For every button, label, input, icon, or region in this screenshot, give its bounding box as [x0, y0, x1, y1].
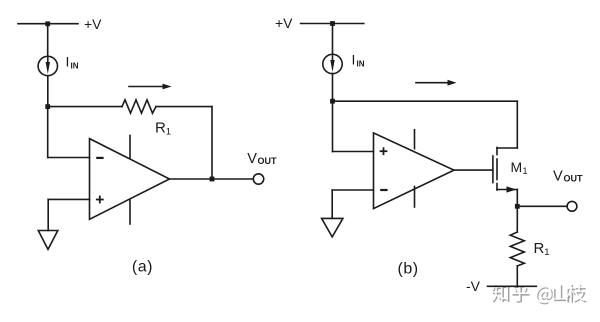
svg-text:-V: -V	[466, 278, 481, 294]
svg-text:1: 1	[544, 247, 549, 258]
svg-text:(b): (b)	[398, 261, 419, 278]
svg-text:V: V	[553, 169, 563, 185]
svg-text:+V: +V	[84, 16, 102, 32]
svg-text:IN: IN	[357, 60, 365, 69]
svg-text:OUT: OUT	[564, 174, 584, 184]
svg-text:1: 1	[166, 126, 171, 137]
svg-text:+V: +V	[275, 15, 293, 31]
svg-text:M: M	[511, 159, 523, 175]
svg-text:I: I	[352, 52, 356, 68]
svg-text:R: R	[534, 240, 545, 257]
svg-text:R: R	[155, 119, 166, 136]
svg-text:V: V	[247, 151, 257, 167]
svg-text:I: I	[66, 54, 70, 70]
svg-text:(a): (a)	[132, 259, 153, 276]
svg-text:1: 1	[523, 166, 528, 176]
svg-text:OUT: OUT	[258, 156, 278, 166]
svg-text:IN: IN	[71, 62, 79, 71]
